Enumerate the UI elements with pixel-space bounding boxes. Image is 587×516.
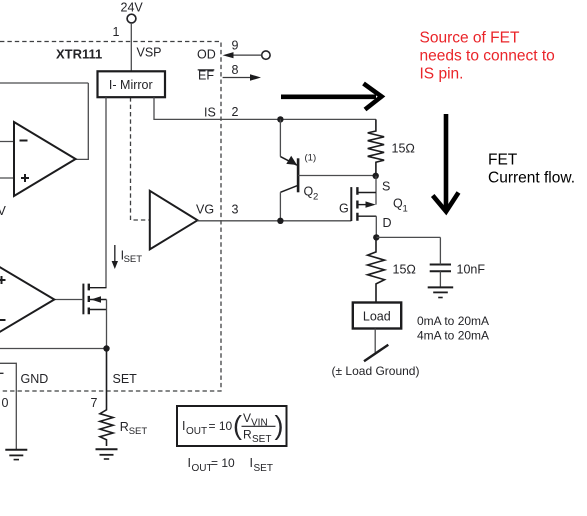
- wire Q2 base to S node: [298, 175, 376, 177]
- wire Q2 collector down to VG line: [279, 192, 281, 221]
- wire Q2 emitter up to IS: [279, 119, 281, 156]
- pin 3 VG: [196, 203, 239, 217]
- transistor M1 (ISET FET): [83, 284, 106, 315]
- pin 2 IS: [204, 105, 239, 120]
- ground (RSET): [96, 449, 118, 459]
- svg-text:= 10: = 10: [211, 456, 235, 470]
- svg-text:4mA to 20mA: 4mA to 20mA: [417, 329, 489, 343]
- transistor Q2 (PNP): [280, 157, 298, 193]
- svg-text:(: (: [233, 411, 242, 441]
- I-Mirror box U1: [98, 71, 166, 97]
- svg-text:S: S: [382, 180, 390, 194]
- svg-text:SET: SET: [129, 426, 148, 437]
- svg-text:I: I: [188, 456, 191, 470]
- svg-text:I: I: [250, 456, 253, 470]
- wire Q1 drain down: [375, 216, 377, 237]
- wire S node to Q1 source: [375, 176, 377, 205]
- svg-text:V: V: [0, 204, 7, 218]
- svg-text:D: D: [383, 216, 392, 230]
- op-amp U2 input wires: [0, 142, 14, 179]
- pin 9 OD: [197, 39, 270, 62]
- resistor R1 15 ohm: [368, 119, 384, 175]
- svg-text:R: R: [243, 428, 252, 442]
- svg-text:0: 0: [2, 396, 9, 410]
- node D junction: [373, 234, 379, 240]
- wire op-amp feedback to I-Mirror: [0, 82, 88, 84]
- pin 8 EF: [198, 63, 261, 83]
- wire VG to Q1 gate: [198, 220, 352, 222]
- svg-text:= 10: = 10: [209, 419, 233, 433]
- svg-text:IS pin.: IS pin.: [420, 66, 464, 83]
- internal dashed line I-Mirror to VG buffer: [131, 97, 150, 220]
- formula box: [177, 406, 287, 446]
- VG buffer amp U3: [150, 191, 198, 250]
- op-amp U2: [14, 122, 76, 196]
- svg-text:IS: IS: [204, 106, 216, 120]
- annotation arrow vertical: [433, 114, 459, 212]
- op-amp U1 (partial, bottom-left): [0, 263, 54, 337]
- svg-text:10nF: 10nF: [457, 263, 486, 277]
- 24V terminal: [121, 1, 144, 24]
- wire op-amp output up: [76, 83, 89, 159]
- svg-text:): ): [275, 411, 284, 441]
- node S junction: [373, 173, 379, 179]
- svg-text:Current flow.: Current flow.: [488, 170, 575, 187]
- resistor R2 15 ohm: [368, 237, 385, 302]
- IC boundary dashed box (XTR111): [0, 42, 221, 392]
- GND pin wire: [0, 363, 16, 449]
- svg-text:(± Load Ground): (± Load Ground): [332, 364, 420, 378]
- load ground slash: [364, 345, 388, 362]
- svg-text:8: 8: [232, 63, 239, 77]
- node SET junction: [103, 345, 109, 351]
- svg-text:0mA to 20mA: 0mA to 20mA: [417, 314, 489, 328]
- annotation FET current flow: [488, 152, 575, 187]
- node IS junction: [277, 116, 283, 122]
- formula IOUT = 10 ISET: [188, 456, 273, 474]
- svg-text:OD: OD: [197, 48, 216, 62]
- svg-text:1: 1: [113, 25, 120, 39]
- svg-text:(1): (1): [305, 153, 317, 164]
- svg-text:FET: FET: [488, 152, 518, 169]
- node VG junction: [277, 218, 283, 224]
- resistor RSET: [100, 349, 113, 447]
- svg-text:15Ω: 15Ω: [393, 263, 417, 277]
- wire op-amp U1 out to M1 gate: [54, 299, 83, 301]
- svg-text:Q: Q: [304, 185, 314, 199]
- svg-text:I- Mirror: I- Mirror: [109, 78, 153, 92]
- svg-text:7: 7: [91, 396, 98, 410]
- svg-text:OUT: OUT: [186, 426, 207, 437]
- svg-text:2: 2: [313, 192, 318, 203]
- wire load to ground slash: [374, 329, 376, 353]
- svg-text:VG: VG: [196, 203, 214, 217]
- svg-text:EF: EF: [198, 69, 214, 83]
- wire VSP 24V down to I-Mirror: [130, 23, 132, 71]
- minus tick (cut): [0, 372, 4, 374]
- svg-text:9: 9: [232, 39, 239, 53]
- svg-text:SET: SET: [124, 254, 143, 265]
- wire I-Mirror to IS pin: [154, 97, 376, 119]
- svg-text:G: G: [339, 201, 349, 215]
- ground (capacitor): [428, 287, 454, 297]
- svg-text:1: 1: [403, 204, 408, 215]
- svg-text:SET: SET: [254, 463, 273, 474]
- svg-text:GND: GND: [21, 372, 49, 386]
- svg-text:Q: Q: [393, 197, 403, 211]
- svg-text:VSP: VSP: [137, 46, 162, 60]
- svg-text:V: V: [243, 411, 251, 425]
- load box: [353, 303, 401, 329]
- wire D node to capacitor: [376, 236, 440, 238]
- svg-text:15Ω: 15Ω: [392, 142, 416, 156]
- svg-text:2: 2: [232, 105, 239, 119]
- ISET current arrow: [112, 245, 143, 269]
- svg-text:R: R: [120, 420, 129, 434]
- annotation red text: [420, 30, 555, 83]
- svg-text:Source of FET: Source of FET: [420, 30, 520, 47]
- svg-text:SET: SET: [252, 434, 271, 445]
- svg-text:Load: Load: [363, 310, 391, 324]
- transistor Q1 (PMOS): [351, 187, 376, 221]
- wire VIN node horizontal: [0, 348, 107, 350]
- ground (left): [5, 450, 27, 460]
- svg-text:24V: 24V: [121, 1, 144, 15]
- wire M1 source to SET: [106, 300, 108, 349]
- svg-text:SET: SET: [113, 372, 138, 386]
- wire I-Mirror down (ISET drain): [105, 97, 107, 288]
- svg-text:needs to connect to: needs to connect to: [420, 48, 555, 65]
- svg-text:I: I: [182, 419, 185, 433]
- svg-text:XTR111: XTR111: [56, 47, 102, 62]
- svg-text:3: 3: [232, 203, 239, 217]
- annotation arrow horizontal: [281, 84, 382, 110]
- capacitor C1 10nF: [430, 265, 451, 272]
- svg-text:OUT: OUT: [192, 463, 213, 474]
